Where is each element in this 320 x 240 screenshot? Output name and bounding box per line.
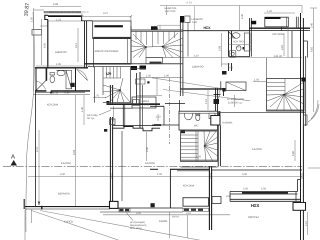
bath divider dark xyxy=(46,68,48,81)
hatched bottom wall of strip xyxy=(93,37,130,39)
svg-text:2.10: 2.10 xyxy=(305,220,308,226)
svg-text:ΒΕΡΑΝΤΑ: ΒΕΡΑΝΤΑ xyxy=(58,193,70,196)
toilet xyxy=(50,73,55,75)
svg-text:1.90: 1.90 xyxy=(277,55,283,58)
G_S1 stair top-center xyxy=(131,6,195,96)
dark column kitchen corner xyxy=(151,203,155,207)
G_S2 stair bottom-center xyxy=(181,131,218,167)
dim y94.3 bath row xyxy=(33,93,90,95)
svg-text:3.00: 3.00 xyxy=(226,195,232,198)
svg-text:1.05: 1.05 xyxy=(254,79,260,82)
wc toilet xyxy=(196,114,200,121)
svg-text:1.40: 1.40 xyxy=(81,106,84,112)
svg-text:ΚΗΠΟΣ: ΚΗΠΟΣ xyxy=(64,220,73,223)
G_BOTTOM xyxy=(24,169,209,240)
closet with diagonal xyxy=(226,82,246,91)
right outer wall xyxy=(300,13,302,240)
svg-text:3.05: 3.05 xyxy=(136,212,142,215)
svg-text:0.90: 0.90 xyxy=(228,66,234,69)
svg-text:1.10: 1.10 xyxy=(205,98,208,104)
bedroom diagonal line xyxy=(152,78,223,89)
svg-text:2.60: 2.60 xyxy=(146,146,149,152)
svg-text:1.10: 1.10 xyxy=(156,116,162,119)
below-stair ducts xyxy=(131,66,137,70)
right bath wall xyxy=(75,67,77,91)
dim under stair S1 "1.60 1.90" xyxy=(140,76,183,78)
room1 left wall with notch xyxy=(45,15,48,19)
dim x295 xyxy=(294,140,296,161)
right fan xyxy=(163,33,184,58)
svg-text:ΚΛΙΜΑΚ.: ΚΛΙΜΑΚ. xyxy=(223,122,234,125)
shower xyxy=(66,70,72,89)
svg-text:3.27: 3.27 xyxy=(103,12,109,15)
svg-text:ΑΜΠΑΡΙ ΠΕΡΣΙΚΩΝ: ΑΜΠΑΡΙ ΠΕΡΣΙΚΩΝ xyxy=(95,50,119,53)
svg-text:A: A xyxy=(11,154,15,161)
WC room box xyxy=(179,111,218,130)
door swing xyxy=(36,80,46,90)
svg-text:1.05: 1.05 xyxy=(157,173,163,176)
left vertical dim x41 xyxy=(41,19,43,65)
svg-text:2.62: 2.62 xyxy=(186,212,192,215)
bottom-left wall xyxy=(23,199,25,209)
long dim y176 xyxy=(28,176,302,178)
svg-text:Ε=80.00 τ.μ.: Ε=80.00 τ.μ. xyxy=(228,101,243,104)
G_S4 stair lower flight xyxy=(103,39,131,103)
left fan xyxy=(131,34,146,58)
right vertical dim x313 xyxy=(313,8,315,112)
G_RIGHT block xyxy=(183,13,320,240)
G_BATH fixtures xyxy=(36,67,88,91)
axis dash-dot line vertical xyxy=(169,78,171,144)
svg-text:1.90: 1.90 xyxy=(164,74,170,77)
svg-text:ΣΑΛΟΝΙ: ΣΑΛΟΝΙ xyxy=(252,148,262,151)
dim x284 xyxy=(283,33,285,56)
svg-text:60 τ.μ.: 60 τ.μ. xyxy=(87,117,95,120)
svg-text:ΚΑΜΙΝ.: ΚΑΜΙΝ. xyxy=(159,220,168,223)
kitchen top wall xyxy=(250,27,311,29)
svg-text:4.81: 4.81 xyxy=(281,44,284,50)
top-left balcony rail double line xyxy=(44,10,81,12)
middle zone walls xyxy=(150,105,164,107)
niche box on wall xyxy=(212,197,221,204)
svg-text:5.00: 5.00 xyxy=(242,173,248,176)
pillar bottom xyxy=(110,201,119,208)
dim x305 bottom right xyxy=(306,212,308,235)
G_LABELS room labels xyxy=(47,33,284,230)
left vertical dim x84 xyxy=(83,95,85,125)
svg-text:3.00: 3.00 xyxy=(60,173,66,176)
wall end cap dark xyxy=(222,71,227,75)
svg-text:ΑΝΟΙΧΤΟΣ ΕΞΩΣΤΗΣ ΜΕ ΠΕΡΓΚΟΛΑ 0: ΑΝΟΙΧΤΟΣ ΕΞΩΣΤΗΣ ΜΕ ΠΕΡΓΚΟΛΑ 0.90χ2.20 xyxy=(49,11,89,14)
svg-text:1.70: 1.70 xyxy=(106,73,112,76)
dim x75 long xyxy=(75,95,77,206)
wall y67 across xyxy=(35,67,88,69)
hall low wall xyxy=(152,124,179,126)
interior landing line xyxy=(146,57,183,59)
pillar box mid xyxy=(211,116,220,126)
svg-text:6.73: 6.73 xyxy=(187,1,193,4)
svg-text:ΚΟΥΖΙΝΑ: ΚΟΥΖΙΝΑ xyxy=(47,104,58,107)
room1/room2 divider wall xyxy=(84,21,86,68)
bath fixtures xyxy=(244,33,250,51)
wall x210 lower to bottom xyxy=(208,166,210,230)
dark block stair corner xyxy=(181,130,185,133)
svg-text:4.50: 4.50 xyxy=(44,42,47,48)
top-left thick wall band xyxy=(48,15,81,17)
svg-text:1.70: 1.70 xyxy=(94,95,100,98)
room1 interior dim xyxy=(77,28,79,62)
sink xyxy=(57,70,65,75)
dim x234 xyxy=(234,95,236,107)
dim "1.70" xyxy=(93,97,106,99)
top-right balcony xyxy=(265,17,289,27)
dim "1.05" left of S3 xyxy=(253,81,266,83)
natural ground wavy line xyxy=(26,12,35,232)
svg-text:οπλ. σκυρ.: οπλ. σκυρ. xyxy=(130,227,143,230)
dim x146 xyxy=(146,132,148,161)
G_SMALL top annotations xyxy=(153,7,244,31)
top dim line left "2.88" xyxy=(40,6,81,8)
dim x212 xyxy=(221,33,223,67)
bath row left wall xyxy=(35,67,37,91)
dim "3.27" xyxy=(82,15,131,17)
bathroom walls top-right xyxy=(228,31,230,57)
svg-text:ΗΣΧ: ΗΣΧ xyxy=(204,26,212,30)
bath row bottom wall xyxy=(35,90,46,92)
svg-text:4.93: 4.93 xyxy=(73,149,76,155)
terrace diagonal line lower xyxy=(163,90,250,101)
wc sink xyxy=(184,113,192,120)
room2 upper strip box xyxy=(81,15,83,21)
thin vertical x122 xyxy=(121,131,123,201)
kitchen label area left: wall x110 xyxy=(109,85,111,103)
left vertical dim 39.87 xyxy=(33,8,35,91)
wc shower box xyxy=(209,113,215,119)
wall y170 right xyxy=(212,169,302,171)
svg-text:2.05: 2.05 xyxy=(261,188,267,191)
veranda bands xyxy=(230,191,298,193)
svg-text:1.48: 1.48 xyxy=(144,103,150,106)
left vertical dim x39 lower xyxy=(38,130,40,205)
balcony dim "4.20" xyxy=(264,12,295,14)
dark wall right of WC xyxy=(218,111,220,125)
kitchen top wall bottom-center xyxy=(150,168,158,170)
svg-text:5.80: 5.80 xyxy=(292,150,295,156)
svg-text:2.00: 2.00 xyxy=(243,188,249,191)
svg-text:ΣΑΛΟΝΙ: ΣΑΛΟΝΙ xyxy=(145,162,155,165)
G_CENTER walls xyxy=(104,72,233,230)
svg-text:1.60: 1.60 xyxy=(146,74,152,77)
window dark band xyxy=(94,25,123,27)
niche on wall x110 xyxy=(110,119,116,125)
kitchen left wall xyxy=(249,18,251,57)
svg-text:WC: WC xyxy=(194,125,198,128)
section line A-A xyxy=(3,165,302,167)
svg-text:2.98: 2.98 xyxy=(219,45,222,51)
building left wall lower xyxy=(35,91,37,207)
svg-text:6.20: 6.20 xyxy=(192,21,198,24)
dim y95.5 xyxy=(137,95,162,97)
svg-text:2.40: 2.40 xyxy=(241,13,244,19)
dim y214.5 "3.05" xyxy=(103,214,230,216)
wall x140 xyxy=(136,73,138,103)
svg-text:ΚΟΥΖΙΝΑ: ΚΟΥΖΙΝΑ xyxy=(183,185,194,188)
svg-text:1.22: 1.22 xyxy=(56,18,62,21)
small dim x158 xyxy=(157,114,159,121)
svg-text:4.65: 4.65 xyxy=(311,46,314,52)
svg-text:1.10: 1.10 xyxy=(153,28,159,31)
svg-text:ΛΟΥΤΡΟ: ΛΟΥΤΡΟ xyxy=(233,41,244,44)
bedroom bottom wall xyxy=(180,88,223,90)
small box bottom-right xyxy=(293,203,306,211)
dim "1.90" above S3 xyxy=(183,57,302,59)
svg-text:1.50: 1.50 xyxy=(30,16,33,22)
svg-text:3.11: 3.11 xyxy=(75,43,78,48)
svg-text:3.10: 3.10 xyxy=(194,55,200,58)
svg-text:2.88: 2.88 xyxy=(53,3,59,6)
svg-text:1.05: 1.05 xyxy=(196,156,202,159)
svg-text:4.70: 4.70 xyxy=(36,146,39,152)
svg-text:1.10 0.90: 1.10 0.90 xyxy=(165,10,176,13)
dim above wall y67 xyxy=(36,65,90,67)
terrain diagonal 1 xyxy=(40,211,215,240)
svg-text:ΑΥΛΗ: ΑΥΛΗ xyxy=(172,216,179,219)
closet wall y128 stepped xyxy=(112,127,160,131)
G_S3 stair right xyxy=(219,58,305,113)
terrain diagonal 2 xyxy=(32,211,125,240)
svg-text:2.40: 2.40 xyxy=(311,22,314,28)
closet top line xyxy=(113,125,160,127)
right wall notch xyxy=(297,180,299,192)
wall x210 double upper xyxy=(215,88,217,111)
svg-text:ΟΜΠΡΕΛ: ΟΜΠΡΕΛ xyxy=(248,216,260,219)
svg-text:1.20: 1.20 xyxy=(267,10,273,13)
entry arc xyxy=(311,100,318,119)
kitchen counter xyxy=(183,198,209,207)
wall y103 xyxy=(107,103,161,105)
right double wall of stair down xyxy=(179,20,181,96)
svg-text:ΔΩΜΑΤΙΟ: ΔΩΜΑΤΙΟ xyxy=(55,51,67,54)
svg-text:1.85: 1.85 xyxy=(56,63,62,66)
svg-text:ΚΟΥΖΙΝΑ: ΚΟΥΖΙΝΑ xyxy=(273,33,284,36)
fridge box xyxy=(132,97,156,108)
dim above stair xyxy=(157,24,181,26)
corridor top wall xyxy=(183,30,250,32)
svg-text:ΗΣΧ: ΗΣΧ xyxy=(251,203,260,208)
G_WALLS xyxy=(35,11,131,207)
top dim line center "6.73" xyxy=(160,5,302,7)
svg-text:ΣΑΛΟΝΙ: ΣΑΛΟΝΙ xyxy=(61,162,71,165)
right closet door arc xyxy=(77,70,88,81)
svg-text:ΔΩΜΑΤΙΟ: ΔΩΜΑΤΙΟ xyxy=(192,66,204,69)
svg-text:1.8: 1.8 xyxy=(274,55,278,58)
shaft wall right of stair xyxy=(187,22,189,57)
